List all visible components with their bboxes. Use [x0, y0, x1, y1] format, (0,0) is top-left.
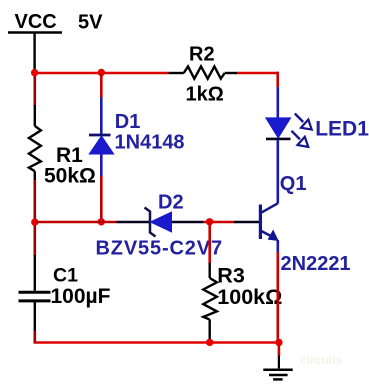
- node junction D1-D2: [98, 218, 105, 225]
- LED arrow 1: [295, 114, 312, 130]
- zener diode D2: [145, 208, 204, 237]
- node junction top-left: [31, 69, 38, 76]
- svg-text:1N4148: 1N4148: [115, 132, 185, 154]
- wire D2 row red right: [203, 221, 234, 224]
- wire ground stub red: [278, 343, 281, 356]
- wire left vertical net middle: [33, 179, 36, 256]
- LED arrow 2: [292, 131, 309, 147]
- wire D2 row black left lead: [117, 221, 150, 224]
- resistor R1: [29, 105, 41, 180]
- svg-text:LED1: LED1: [315, 117, 369, 140]
- wire left vertical net lower: [33, 330, 36, 344]
- svg-text:D2: D2: [158, 192, 184, 214]
- svg-text:R3: R3: [217, 264, 245, 288]
- capacitor C1: [19, 255, 51, 331]
- node junction left-D2: [31, 218, 38, 225]
- svg-text:R2: R2: [189, 43, 215, 65]
- node junction ground: [275, 339, 282, 346]
- wire bottom horizontal net: [35, 341, 279, 344]
- power symbol VCC: [8, 11, 62, 33]
- resistor R3: [203, 263, 217, 342]
- wire top horizontal net right part: [237, 72, 279, 75]
- svg-text:100µF: 100µF: [51, 285, 111, 308]
- svg-text:circuits: circuits: [300, 353, 343, 367]
- svg-text:5V: 5V: [78, 12, 103, 34]
- svg-text:Q1: Q1: [280, 173, 307, 195]
- node junction R3-bottom: [206, 339, 213, 346]
- svg-text:C1: C1: [53, 265, 78, 287]
- transistor Q1: [260, 203, 278, 252]
- node junction D2-R3-base: [206, 218, 213, 225]
- wire emitter red: [276, 252, 279, 343]
- wire left vertical net upper: [33, 73, 36, 106]
- resistor R2: [169, 66, 238, 78]
- diode D1: [89, 97, 114, 176]
- svg-text:D1: D1: [115, 111, 141, 133]
- svg-text:BZV55-C2V7: BZV55-C2V7: [96, 238, 223, 260]
- wire D1 branch red segments: [100, 73, 103, 97]
- wire LED branch red top: [276, 72, 279, 87]
- wire base black segment: [234, 221, 259, 224]
- wire VCC stub: [33, 34, 35, 72]
- node junction top-D1: [98, 69, 105, 76]
- svg-text:2N2221: 2N2221: [281, 253, 351, 275]
- LED LED1: [266, 87, 291, 204]
- ground: [263, 356, 292, 380]
- wire top horizontal net: [35, 72, 169, 75]
- svg-text:100kΩ: 100kΩ: [217, 285, 282, 309]
- svg-text:1kΩ: 1kΩ: [186, 84, 224, 106]
- svg-text:VCC: VCC: [15, 11, 57, 33]
- wire D2 row red left: [35, 221, 117, 224]
- wire R3 branch red: [208, 222, 211, 263]
- svg-text:50kΩ: 50kΩ: [44, 165, 96, 188]
